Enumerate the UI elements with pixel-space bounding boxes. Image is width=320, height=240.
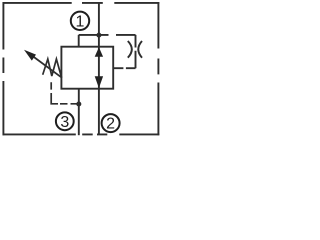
svg-text:2: 2	[106, 116, 115, 133]
wire: pilot branch horizontal from node to orifice	[79, 34, 136, 36]
port 2 circle	[102, 114, 120, 132]
pilot line left vertical (dashed)	[51, 82, 58, 104]
valve body square	[61, 47, 113, 89]
spring (zigzag)	[43, 59, 62, 77]
svg-text:1: 1	[76, 13, 85, 30]
port 3 circle	[56, 112, 74, 130]
arrow up (flow path in valve body)	[95, 47, 103, 56]
envelope border left (dashed)	[2, 2, 4, 135]
adjustment arrow shaft	[33, 56, 62, 77]
svg-text:3: 3	[60, 114, 69, 131]
orifice )( left arc	[128, 41, 132, 58]
wire: pilot bottom leg to valve body right side	[113, 67, 135, 69]
node: junction dot at port3/pilot	[76, 101, 81, 106]
envelope border top (dashed)	[3, 2, 160, 4]
arrow down (flow path in valve body)	[95, 76, 103, 88]
envelope border bottom (dashed)	[3, 133, 160, 135]
orifice )( right arc	[138, 41, 142, 58]
wire: main vertical line port1 to port2	[98, 3, 100, 135]
wire: stub from branch down to valve body	[78, 35, 80, 47]
adjustment arrow head	[24, 50, 36, 61]
wire: port3 line from valve bottom to border	[78, 89, 80, 136]
node: junction dot at pilot branch	[96, 33, 101, 38]
pilot line left horizontal (dashed)	[60, 103, 77, 105]
envelope border right (dashed)	[157, 2, 159, 135]
wire: pilot vertical through orifice	[135, 35, 137, 68]
port 1 circle	[71, 12, 89, 30]
